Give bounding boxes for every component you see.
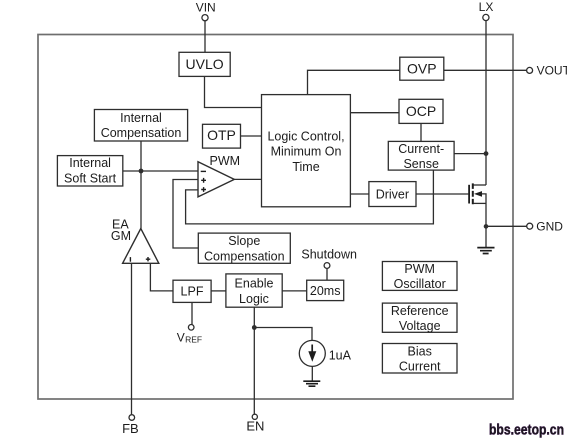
svg-text:GND: GND	[536, 219, 563, 233]
svg-text:UVLO: UVLO	[186, 56, 224, 72]
svg-text:EN: EN	[246, 419, 264, 434]
svg-text:Minimum On: Minimum On	[271, 145, 342, 159]
svg-text:Current: Current	[399, 360, 441, 374]
svg-text:PWM: PWM	[404, 262, 435, 276]
svg-text:Bias: Bias	[408, 344, 432, 358]
svg-text:Shutdown: Shutdown	[301, 247, 357, 261]
svg-text:Logic: Logic	[239, 292, 269, 306]
svg-text:V: V	[177, 331, 185, 345]
svg-text:Oscillator: Oscillator	[394, 277, 446, 291]
svg-text:LPF: LPF	[181, 285, 204, 299]
svg-text:Enable: Enable	[235, 277, 274, 291]
svg-text:REF: REF	[185, 335, 202, 345]
svg-text:bbs.eetop.cn: bbs.eetop.cn	[489, 423, 564, 439]
svg-text:Current-: Current-	[398, 142, 444, 156]
svg-text:1uA: 1uA	[329, 348, 352, 362]
svg-text:OTP: OTP	[207, 127, 236, 143]
svg-text:Reference: Reference	[391, 304, 449, 318]
svg-text:OVP: OVP	[407, 61, 437, 77]
svg-text:PWM: PWM	[210, 154, 241, 168]
svg-text:Sense: Sense	[403, 157, 438, 171]
svg-text:Internal: Internal	[120, 111, 162, 125]
svg-text:Soft Start: Soft Start	[64, 172, 117, 186]
svg-text:Compensation: Compensation	[101, 126, 182, 140]
svg-text:Internal: Internal	[69, 156, 111, 170]
svg-text:20ms: 20ms	[310, 284, 341, 298]
svg-text:OCP: OCP	[406, 103, 436, 119]
svg-text:FB: FB	[122, 421, 139, 436]
svg-text:VIN: VIN	[196, 1, 216, 15]
svg-text:Time: Time	[292, 160, 319, 174]
svg-text:Voltage: Voltage	[399, 319, 441, 333]
svg-text:Logic Control,: Logic Control,	[267, 129, 344, 143]
svg-text:Driver: Driver	[376, 188, 409, 202]
svg-text:GM: GM	[111, 229, 131, 243]
svg-text:Compensation: Compensation	[204, 249, 285, 263]
svg-text:LX: LX	[479, 0, 494, 14]
svg-text:VOUT: VOUT	[537, 64, 567, 78]
svg-text:Slope: Slope	[228, 234, 260, 248]
